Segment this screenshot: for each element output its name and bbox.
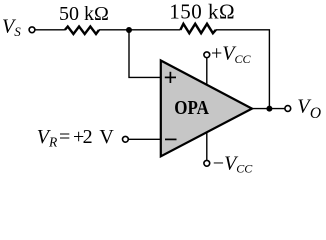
wire VS terminal to resistor R1	[36, 29, 65, 31]
node B output junction dot	[266, 106, 272, 112]
wire op-amp output to VO terminal	[252, 108, 285, 110]
wire node A down and into noninverting input	[129, 30, 160, 78]
op-amp inverting input minus symbol	[165, 138, 177, 140]
op-amp U1 (OPA) triangle	[161, 61, 252, 157]
wire node A to resistor R2	[129, 29, 180, 31]
terminal VS open circle	[29, 27, 35, 33]
wire VR terminal to inverting input	[129, 138, 160, 140]
resistor R2 150 kOhm zigzag	[180, 24, 216, 33]
terminal VO open circle	[285, 106, 291, 112]
terminal +VCC open circle	[204, 52, 210, 58]
op-amp noninverting input plus symbol	[165, 72, 176, 83]
terminal -VCC open circle	[204, 160, 210, 166]
terminal VR open circle	[123, 136, 129, 142]
node A junction dot	[126, 27, 132, 33]
resistor R1 50 kOhm zigzag	[65, 27, 99, 35]
svg-text:150 kΩ: 150 kΩ	[169, 0, 235, 24]
svg-text:VR=+2V: VR=+2V	[37, 126, 115, 149]
svg-text:50 kΩ: 50 kΩ	[59, 3, 109, 25]
wire +VCC terminal stub to op-amp top	[206, 58, 208, 86]
wire resistor R2 to feedback corner and down to output node	[216, 30, 270, 109]
wire -VCC terminal stub from op-amp bottom	[206, 132, 208, 160]
wire resistor R1 to node A	[99, 29, 129, 31]
svg-text:OPA: OPA	[174, 97, 209, 120]
